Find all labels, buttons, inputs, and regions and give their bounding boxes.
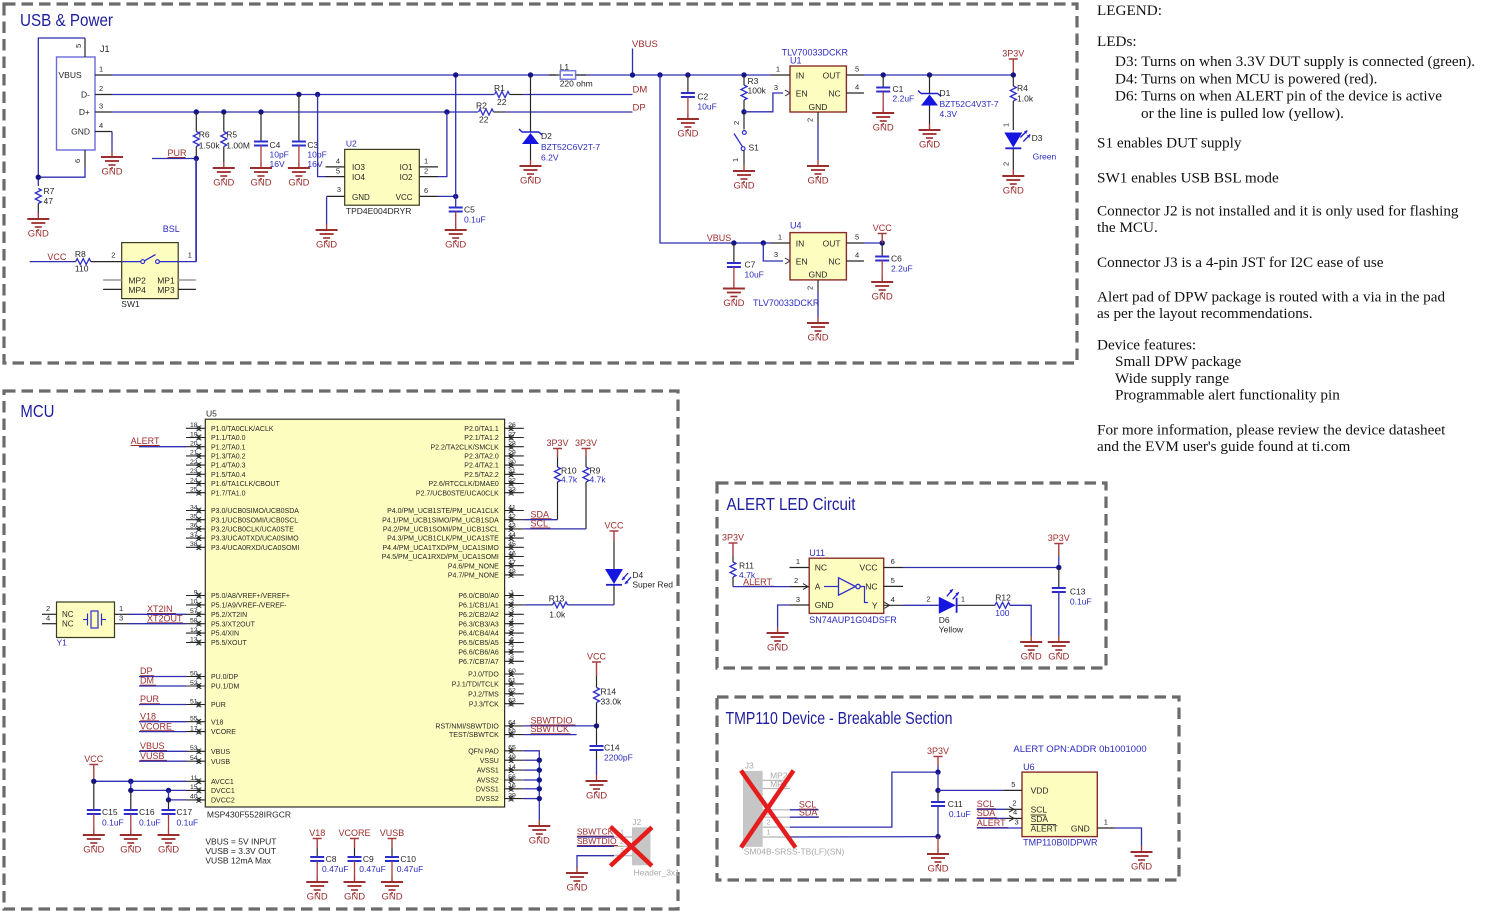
wire J1 shield pins to R7 [38, 38, 85, 186]
svg-text:P2.6/RTCCLK/DMAE0: P2.6/RTCCLK/DMAE0 [429, 481, 499, 488]
Y1 pin 2 [42, 613, 57, 615]
ground C7 [733, 283, 735, 289]
svg-text:VCC: VCC [873, 223, 893, 233]
resistor R1 [495, 92, 510, 98]
capacitor C11 [937, 790, 939, 802]
no-install X over J2 [610, 827, 652, 866]
svg-text:1: 1 [424, 157, 428, 166]
svg-text:59: 59 [508, 728, 516, 735]
U5 pin 21 P1.3/TA0.2 [186, 455, 205, 457]
svg-text:2: 2 [806, 286, 815, 290]
wire SW1 pin1 to BSL/PUR [178, 159, 196, 262]
svg-text:Connector J2 is not installed: Connector J2 is not installed and it is … [1097, 203, 1459, 220]
svg-text:2: 2 [767, 820, 771, 827]
U5 pin 56 AVSS2 [505, 779, 524, 781]
svg-text:EN: EN [796, 256, 808, 266]
svg-text:P4.2/PM_UCB1SOMI/PM_UCB1SCL: P4.2/PM_UCB1SOMI/PM_UCB1SCL [383, 527, 499, 534]
U5 pin 54 VUSB [186, 760, 205, 762]
U1 pin 1 [771, 74, 790, 76]
ground C10 [391, 876, 393, 882]
svg-text:P2.5/TA2.2: P2.5/TA2.2 [464, 472, 499, 479]
svg-text:VUSB = 3.3V OUT: VUSB = 3.3V OUT [205, 846, 276, 856]
U5 pin 57 P5.2/XT2IN [186, 613, 205, 615]
svg-text:52: 52 [190, 680, 198, 687]
U5 pin 32 P2.6/RTCCLK/DMAE0 [505, 483, 524, 485]
svg-text:SDA: SDA [799, 807, 818, 817]
svg-text:2.2uF: 2.2uF [891, 263, 913, 273]
resistor R2 [479, 109, 494, 115]
U5 pin 13 P5.5/XOUT [186, 642, 205, 644]
inductor L1 [549, 74, 560, 76]
svg-text:GND: GND [520, 176, 541, 187]
svg-text:and the EVM user's guide found: and the EVM user's guide found at ti.com [1097, 438, 1350, 455]
svg-text:P5.4/XIN: P5.4/XIN [211, 631, 239, 638]
capacitor C16 [130, 790, 132, 810]
svg-text:D2: D2 [541, 131, 552, 141]
svg-text:100k: 100k [748, 86, 767, 96]
svg-text:1.00M: 1.00M [226, 141, 250, 151]
U5 pin 33 P2.7/UCB0STE/UCA0CLK [505, 492, 524, 494]
U5 pin 11 AVCC1 [186, 780, 205, 782]
U1 pin 5 [846, 74, 864, 76]
svg-text:SN74AUP1G04DSFR: SN74AUP1G04DSFR [809, 615, 897, 625]
svg-text:P1.4/TA0.3: P1.4/TA0.3 [211, 463, 246, 470]
svg-text:OUT: OUT [823, 70, 841, 80]
ground S1 [743, 165, 745, 171]
capacitor C15 [93, 781, 95, 810]
svg-text:TPD4E004DRYR: TPD4E004DRYR [346, 206, 412, 216]
svg-text:C13: C13 [1070, 587, 1086, 597]
svg-text:49: 49 [508, 754, 516, 761]
led D4 super red [613, 541, 615, 569]
svg-text:22: 22 [479, 115, 489, 125]
svg-text:65: 65 [508, 745, 516, 752]
wire U2 pin3 to GND [326, 196, 328, 224]
svg-text:P2.1/TA1.2: P2.1/TA1.2 [464, 435, 499, 442]
svg-text:P5.2/XT2IN: P5.2/XT2IN [211, 612, 247, 619]
svg-text:R14: R14 [601, 687, 617, 697]
U1 pin 2 GND [817, 112, 819, 124]
svg-text:TLV70033DCKR: TLV70033DCKR [753, 298, 820, 308]
svg-text:2: 2 [510, 599, 514, 606]
svg-text:33: 33 [508, 487, 516, 494]
svg-text:23: 23 [190, 468, 198, 475]
wire DVCC1 rail [128, 779, 133, 784]
U4 pin 4 [846, 260, 864, 262]
capacitor C2 [685, 72, 690, 77]
svg-text:Y1: Y1 [57, 638, 68, 648]
U5 pin 58 P5.3/XT2OUT [186, 623, 205, 625]
resistor R12 [958, 604, 996, 606]
svg-text:C4: C4 [270, 140, 281, 150]
U5 pin 55 V18 [186, 721, 205, 723]
svg-text:3: 3 [1015, 817, 1019, 826]
svg-text:R6: R6 [199, 130, 210, 140]
svg-text:ALERT OPN:ADDR 0b1001000: ALERT OPN:ADDR 0b1001000 [1013, 744, 1146, 755]
svg-text:6.2V: 6.2V [541, 153, 559, 163]
ground C16 [130, 829, 132, 835]
section frame: MCU [4, 391, 678, 909]
svg-text:NC: NC [62, 610, 74, 619]
svg-text:2: 2 [732, 121, 741, 125]
svg-text:35: 35 [190, 514, 198, 521]
svg-text:3: 3 [99, 102, 103, 111]
svg-text:GND: GND [677, 129, 698, 140]
svg-text:16: 16 [508, 783, 516, 790]
svg-text:DP: DP [140, 666, 153, 676]
svg-text:GND: GND [586, 791, 607, 802]
ground C13 [1058, 636, 1060, 642]
wire J3 pin2 to 3P3V [790, 772, 938, 827]
svg-text:Yellow: Yellow [939, 625, 964, 635]
U5 pin 47 P4.6/PM_NONE [505, 565, 524, 567]
svg-text:Small DPW package: Small DPW package [1115, 353, 1242, 370]
svg-text:4.7k: 4.7k [561, 475, 578, 485]
svg-text:Super Red: Super Red [632, 580, 673, 590]
connector J1 [57, 57, 96, 150]
svg-text:2: 2 [99, 84, 103, 93]
U5 pin 28 P2.2/TA2CLK/SMCLK [505, 446, 524, 448]
svg-text:VBUS: VBUS [632, 39, 658, 50]
resistor R11 [732, 556, 734, 562]
svg-text:VSSU: VSSU [480, 758, 499, 765]
svg-text:IO2: IO2 [400, 173, 413, 182]
svg-text:4: 4 [510, 618, 514, 625]
U5 pin 49 VSSU [505, 759, 524, 761]
svg-text:GND: GND [1071, 823, 1090, 833]
svg-text:QFN PAD: QFN PAD [468, 748, 499, 755]
U11 pin 1 [790, 567, 810, 569]
svg-text:LEGEND:: LEGEND: [1097, 2, 1162, 19]
svg-text:IO3: IO3 [352, 163, 365, 172]
svg-text:J1: J1 [100, 44, 110, 54]
svg-text:24: 24 [190, 477, 198, 484]
svg-text:3: 3 [337, 185, 341, 194]
svg-text:VBUS: VBUS [140, 741, 165, 751]
svg-text:ALERT: ALERT [743, 577, 772, 587]
svg-text:GND: GND [809, 269, 828, 279]
svg-text:2: 2 [111, 251, 115, 260]
svg-text:S1: S1 [749, 143, 760, 153]
svg-text:DVCC1: DVCC1 [211, 788, 235, 795]
svg-text:Green: Green [1033, 152, 1057, 162]
ground D3 [1012, 170, 1014, 176]
svg-text:13: 13 [190, 636, 198, 643]
U5 pin 43 P4.2/PM_UCB1SOMI/PM_UCB1SCL [505, 528, 524, 530]
U4 pin 5 [846, 242, 864, 244]
svg-text:P6.2/CB2/A2: P6.2/CB2/A2 [458, 612, 499, 619]
svg-text:NC: NC [828, 88, 840, 98]
svg-text:GND: GND [28, 229, 49, 240]
svg-text:GND: GND [250, 178, 271, 189]
svg-text:2: 2 [794, 576, 798, 585]
U2 pin 2 [419, 176, 438, 178]
svg-text:0.1uF: 0.1uF [1070, 596, 1092, 606]
svg-text:P4.3/PM_UCB1CLK/PM_UCA1STE: P4.3/PM_UCB1CLK/PM_UCA1STE [387, 536, 499, 543]
U5 pin 63 PJ.3/TCK [505, 703, 524, 705]
svg-text:AVSS1: AVSS1 [477, 768, 499, 775]
wire DM rail [112, 94, 494, 96]
svg-text:GND: GND [807, 333, 828, 344]
wire VSS row 760.2 [524, 759, 540, 761]
U5 pin 46 P4.5/PM_UCA1RXD/PM_UCA1SOMI [505, 556, 524, 558]
svg-text:PJ.2/TMS: PJ.2/TMS [468, 691, 499, 698]
svg-text:For more information, please r: For more information, please review the … [1097, 421, 1446, 438]
svg-text:P1.5/TA0.4: P1.5/TA0.4 [211, 472, 246, 479]
svg-text:R1: R1 [494, 83, 505, 93]
ground U5 VSS [538, 820, 540, 826]
ground J2 [576, 867, 578, 873]
svg-text:GND: GND [83, 845, 104, 856]
svg-text:SBWTDIO: SBWTDIO [577, 836, 617, 846]
ground J1 pin4 [111, 151, 113, 157]
svg-text:2: 2 [424, 166, 428, 175]
svg-text:GND: GND [807, 176, 828, 187]
svg-text:IO1: IO1 [400, 163, 413, 172]
svg-text:1: 1 [188, 251, 192, 260]
svg-text:3P3V: 3P3V [575, 438, 597, 448]
svg-text:P6.6/CB6/A6: P6.6/CB6/A6 [458, 650, 499, 657]
svg-text:2200pF: 2200pF [604, 753, 633, 763]
svg-text:R11: R11 [739, 561, 754, 571]
U5 pin 6 P6.5/CB5/A5 [505, 642, 524, 644]
wire AVCC1 rail [94, 780, 186, 782]
svg-text:5: 5 [855, 233, 859, 242]
svg-text:5: 5 [510, 627, 514, 634]
diode D1 zener [927, 72, 932, 77]
svg-text:GND: GND [809, 102, 828, 112]
svg-text:R3: R3 [748, 76, 759, 86]
svg-text:P6.7/CB7/A7: P6.7/CB7/A7 [458, 659, 499, 666]
svg-text:41: 41 [508, 504, 516, 511]
svg-text:C5: C5 [464, 205, 475, 215]
svg-text:GND: GND [873, 123, 894, 134]
svg-text:P5.5/XOUT: P5.5/XOUT [211, 640, 248, 647]
svg-text:P4.6/PM_NONE: P4.6/PM_NONE [448, 563, 499, 570]
svg-text:11: 11 [190, 775, 197, 782]
ground R5 [223, 162, 225, 168]
svg-text:GND: GND [307, 892, 328, 903]
svg-text:0.47uF: 0.47uF [397, 864, 423, 874]
svg-text:C2: C2 [697, 92, 708, 102]
wire U2 VCC to VBUS [438, 195, 456, 197]
svg-text:3P3V: 3P3V [722, 533, 744, 543]
svg-text:BZT52C6V2T-7: BZT52C6V2T-7 [541, 142, 600, 152]
svg-text:6: 6 [891, 557, 895, 566]
svg-text:3: 3 [774, 83, 778, 92]
U2 pin 4 [326, 166, 345, 168]
wire 3P3V to VDD [937, 772, 939, 790]
svg-text:A: A [815, 582, 821, 592]
capacitor C14 [596, 726, 598, 746]
svg-text:BSL: BSL [163, 224, 180, 234]
wire VSS row 780 [524, 779, 540, 781]
led D6 yellow [939, 597, 956, 614]
svg-text:0.1uF: 0.1uF [102, 818, 124, 828]
svg-text:1.50k: 1.50k [199, 141, 221, 151]
svg-text:GND: GND [566, 883, 587, 894]
capacitor C13 [1058, 568, 1060, 589]
svg-text:27: 27 [508, 431, 516, 438]
svg-text:0.47uF: 0.47uF [359, 864, 385, 874]
svg-text:Device features:: Device features: [1097, 337, 1196, 354]
svg-text:110: 110 [75, 264, 89, 274]
U5 pin 42 P4.1/PM_UCB1SIMO/PM_UCB1SDA [505, 519, 524, 521]
wire VSS row 798.6 [524, 798, 540, 800]
U5 pin 50 PU.0/DP [186, 676, 205, 678]
svg-text:V18: V18 [211, 719, 224, 726]
ground C3 [298, 162, 300, 168]
svg-text:AVCC1: AVCC1 [211, 779, 234, 786]
svg-text:D-: D- [81, 90, 90, 100]
svg-text:BZT52C4V3T-7: BZT52C4V3T-7 [940, 99, 999, 109]
svg-text:VUSB: VUSB [211, 759, 230, 766]
ground C15 [93, 829, 95, 835]
svg-text:GND: GND [919, 140, 940, 151]
svg-text:VCC: VCC [84, 754, 104, 764]
svg-text:GND: GND [120, 845, 141, 856]
svg-text:PUR: PUR [140, 694, 160, 704]
svg-text:21: 21 [190, 450, 198, 457]
svg-text:C3: C3 [307, 140, 318, 150]
svg-text:J3: J3 [745, 761, 754, 771]
Y1 pin 3 [115, 623, 130, 625]
svg-text:TMP110B0IDPWR: TMP110B0IDPWR [1023, 838, 1098, 848]
ground R7 [37, 213, 39, 219]
svg-text:DM: DM [140, 676, 154, 686]
svg-text:GND: GND [815, 600, 834, 610]
svg-text:10uF: 10uF [697, 101, 716, 111]
svg-text:1.0k: 1.0k [549, 610, 566, 620]
svg-text:28: 28 [508, 441, 516, 448]
U5 pin 1 P6.0/CB0/A0 [505, 595, 524, 597]
svg-text:C9: C9 [363, 854, 374, 864]
svg-text:62: 62 [508, 688, 516, 695]
svg-text:OUT: OUT [823, 238, 841, 248]
svg-text:C15: C15 [102, 807, 118, 817]
svg-text:53: 53 [190, 745, 198, 752]
svg-text:2: 2 [1002, 162, 1011, 166]
svg-text:42: 42 [508, 514, 516, 521]
U5 pin 20 P1.2/TA0.1 [186, 446, 205, 448]
resistor R8 [74, 261, 76, 263]
svg-text:DVSS1: DVSS1 [476, 786, 499, 793]
capacitor C6 [881, 243, 883, 257]
svg-text:D6: D6 [939, 615, 950, 625]
capacitor C5 [449, 207, 463, 209]
svg-text:C11: C11 [948, 799, 963, 809]
svg-text:P1.7/TA1.0: P1.7/TA1.0 [211, 490, 246, 497]
capacitor C7 [731, 240, 736, 245]
U5 pin 39 DVSS2 [505, 798, 524, 800]
svg-text:GND: GND [1003, 186, 1024, 197]
svg-text:U6: U6 [1023, 762, 1035, 772]
resistor R10 [557, 457, 559, 467]
svg-text:VBUS: VBUS [211, 749, 230, 756]
svg-text:4.7k: 4.7k [590, 475, 607, 485]
U5 pin 59 TEST/SBWTCK [505, 734, 524, 736]
svg-text:VCC: VCC [604, 521, 624, 531]
U5 pin 44 P4.3/PM_UCB1CLK/PM_UCA1STE [505, 537, 524, 539]
svg-text:4: 4 [46, 613, 50, 622]
U2 pin 6 [419, 195, 438, 197]
led D3 green [1004, 133, 1022, 148]
svg-text:3: 3 [510, 608, 514, 615]
svg-text:PJ.3/TCK: PJ.3/TCK [469, 701, 499, 708]
wire J2 pin3 to GND [577, 856, 614, 868]
svg-text:3P3V: 3P3V [927, 746, 949, 756]
svg-text:MP3: MP3 [157, 285, 175, 295]
svg-text:P4.1/PM_UCB1SIMO/PM_UCB1SDA: P4.1/PM_UCB1SIMO/PM_UCB1SDA [382, 517, 499, 524]
svg-text:P2.2/TA2CLK/SMCLK: P2.2/TA2CLK/SMCLK [430, 444, 499, 451]
svg-text:V18: V18 [309, 828, 325, 838]
svg-text:P4.0/PM_UCB1STE/PM_UCA1CLK: P4.0/PM_UCB1STE/PM_UCA1CLK [387, 508, 499, 515]
ground C8 [316, 876, 318, 882]
svg-text:or the line is pulled low (yel: or the line is pulled low (yellow). [1141, 105, 1344, 122]
U5 pin 62 PJ.2/TMS [505, 693, 524, 695]
U5 pin 30 P2.4/TA2.1 [505, 464, 524, 466]
svg-text:4: 4 [1013, 808, 1017, 817]
svg-text:38: 38 [190, 541, 198, 548]
SW1 MP stub lines [103, 279, 122, 281]
svg-text:10pF: 10pF [270, 150, 289, 160]
svg-text:GND: GND [158, 845, 179, 856]
svg-text:12: 12 [190, 627, 198, 634]
svg-text:D+: D+ [79, 107, 90, 117]
ic U2 TPD4E004DRYR [345, 149, 420, 205]
svg-text:Programmable alert functionali: Programmable alert functionality pin [1115, 386, 1340, 403]
wire U4 EN [761, 240, 766, 245]
ground C5 [455, 224, 457, 230]
svg-text:C14: C14 [604, 743, 620, 753]
svg-text:R7: R7 [44, 186, 55, 196]
U2 pin 1 [419, 166, 438, 168]
svg-text:3: 3 [119, 613, 123, 622]
U5 pin 45 P4.4/PM_UCA1TXD/PM_UCA1SIMO [505, 546, 524, 548]
svg-text:R8: R8 [75, 249, 86, 259]
wire DM to U2 pin5 [315, 92, 320, 97]
U5 pin 22 P1.4/TA0.3 [186, 464, 205, 466]
U11 pin 5 [884, 585, 903, 587]
svg-text:VDD: VDD [1031, 786, 1049, 796]
svg-text:18: 18 [190, 422, 198, 429]
svg-text:DM: DM [633, 85, 648, 96]
U5 pin 12 P5.4/XIN [186, 632, 205, 634]
U5 pin 38 P3.4/UCA0RXD/UCA0SOMI [186, 546, 205, 548]
svg-text:0.1uF: 0.1uF [464, 215, 486, 225]
svg-text:54: 54 [190, 755, 198, 762]
svg-text:VCC: VCC [47, 252, 67, 262]
svg-text:2: 2 [46, 604, 50, 613]
U11 pin 6 [884, 567, 903, 569]
U5 pin 14 AVSS1 [505, 769, 524, 771]
svg-text:SCL: SCL [531, 519, 549, 529]
wire VSS bus [524, 751, 540, 820]
U5 pin 4 P6.3/CB3/A3 [505, 623, 524, 625]
wire VSS row 788.8 [524, 788, 540, 790]
svg-text:14: 14 [508, 764, 516, 771]
svg-text:50: 50 [190, 670, 198, 677]
svg-text:U4: U4 [790, 221, 802, 231]
svg-text:P3.0/UCB0SIMO/UCB0SDA: P3.0/UCB0SIMO/UCB0SDA [211, 508, 299, 515]
svg-text:ALERT LED Circuit: ALERT LED Circuit [727, 494, 856, 514]
svg-text:MCU: MCU [20, 401, 54, 421]
svg-text:PUR: PUR [211, 702, 226, 709]
svg-text:44: 44 [508, 532, 516, 539]
U5 pin 40 DVCC2 [186, 799, 205, 801]
svg-text:C6: C6 [891, 254, 902, 264]
svg-text:15: 15 [190, 784, 198, 791]
